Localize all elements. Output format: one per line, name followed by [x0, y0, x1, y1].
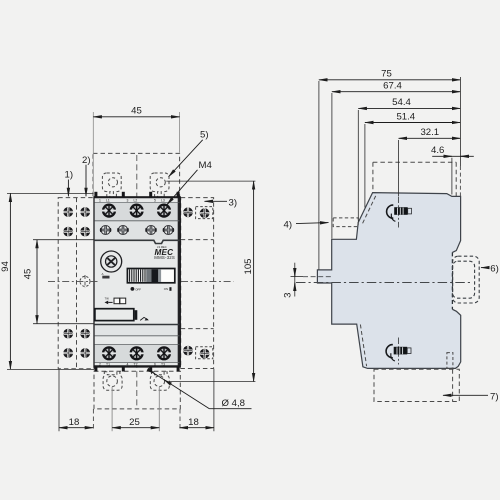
svg-text:67.4: 67.4 [383, 81, 402, 92]
side bottom right corner dashed detail [447, 353, 453, 369]
second row small screws [101, 225, 174, 234]
side 6) accessory dashed boxes [453, 256, 480, 303]
dimension 25 bottom [112, 417, 159, 428]
bottom terminal labels 2 T1 4 T2 6 T3 [99, 362, 165, 366]
label 6) [481, 264, 499, 275]
svg-text:L3: L3 [161, 199, 165, 203]
dimension 18 right bottom [180, 369, 214, 431]
bottom accessory module (dashed) [94, 371, 180, 409]
svg-text:T2: T2 [134, 362, 138, 366]
label M4 [167, 160, 213, 205]
bottom hole extension lines [112, 387, 159, 431]
right accessory screws [183, 207, 209, 358]
svg-text:32.1: 32.1 [420, 127, 439, 138]
svg-text:25: 25 [129, 417, 140, 428]
svg-text:1): 1) [65, 169, 74, 180]
device mounting feet tabs [94, 192, 179, 372]
side dashed slope parallel [363, 195, 377, 224]
label 1) [65, 169, 74, 196]
datum target circle left [48, 275, 98, 288]
device body front view [94, 197, 180, 367]
A marker [102, 272, 110, 278]
svg-text:A: A [102, 272, 104, 276]
svg-text:T1: T1 [106, 362, 110, 366]
svg-text:94: 94 [0, 261, 11, 272]
svg-text:3: 3 [283, 293, 294, 298]
side body outline solid [317, 193, 460, 369]
label 3) [205, 197, 238, 208]
toggle switch [127, 269, 174, 283]
dimension 67.4 [332, 81, 461, 239]
svg-text:75: 75 [381, 69, 392, 80]
svg-text:5: 5 [154, 199, 156, 203]
svg-text:6: 6 [154, 362, 156, 366]
label 4) [284, 219, 329, 230]
svg-text:TW: TW [105, 297, 110, 301]
svg-text:6): 6) [490, 264, 499, 275]
side centerline [296, 282, 471, 284]
side 7) accessory dashed box [374, 369, 459, 401]
label 5) [169, 130, 209, 177]
top accessory module (dashed) [93, 153, 180, 197]
bottom terminal screws [102, 346, 172, 360]
rotary dial [101, 251, 122, 272]
svg-text:105: 105 [243, 258, 254, 274]
left accessory screws [63, 207, 90, 358]
device centerline vertical (dashed) [136, 155, 138, 409]
side front hidden edge (dashed) [451, 252, 453, 309]
left accessory block (dashed) [58, 198, 94, 369]
svg-text:OFF: OFF [135, 287, 141, 291]
dimension 94 left [0, 193, 94, 369]
svg-text:ON: ON [164, 287, 168, 291]
label 7) [443, 391, 499, 402]
side screw top [387, 197, 412, 228]
dimension 54.4 [358, 97, 460, 221]
dimension 32.1 [399, 127, 461, 196]
dimension 75 [319, 69, 461, 270]
bottom clamp left [103, 372, 122, 390]
svg-text:5): 5) [200, 130, 209, 141]
svg-text:T3: T3 [161, 362, 165, 366]
svg-text:18: 18 [188, 417, 199, 428]
svg-text:MMS-32S: MMS-32S [154, 255, 175, 260]
dimension 51.4 [365, 111, 461, 207]
side screw bottom [386, 338, 411, 365]
side 4) dashed box [333, 218, 358, 227]
svg-text:1: 1 [99, 199, 101, 203]
svg-text:3): 3) [229, 197, 238, 208]
svg-text:2): 2) [82, 155, 91, 166]
top clamp right [150, 173, 169, 198]
top clamp left [102, 173, 121, 198]
dimension 45 top [93, 105, 179, 195]
svg-text:7): 7) [490, 391, 499, 402]
svg-text:L1: L1 [106, 199, 110, 203]
svg-text:4: 4 [127, 362, 129, 366]
OFF / ON markings [131, 287, 172, 291]
top terminal labels 1 L1 3 L2 5 L3 [99, 199, 165, 203]
svg-text:2: 2 [99, 362, 101, 366]
label dia 4,8 [148, 370, 251, 409]
svg-text:3: 3 [127, 199, 129, 203]
side top accessory outline (dashed) [373, 162, 456, 196]
svg-text:4): 4) [284, 219, 293, 230]
dimension 105 right [166, 181, 255, 381]
svg-text:51.4: 51.4 [396, 111, 415, 122]
MEC logo [154, 245, 175, 260]
svg-text:M4: M4 [199, 160, 213, 171]
centerline right side [181, 280, 234, 282]
svg-text:18: 18 [69, 417, 80, 428]
svg-text:54.4: 54.4 [392, 97, 411, 108]
side body fill [317, 193, 460, 369]
top terminal screws [102, 204, 172, 218]
test button [105, 297, 126, 305]
bottom clamp right [150, 372, 169, 390]
right accessory dashed sub-squares [196, 207, 213, 359]
svg-text:45: 45 [131, 105, 142, 116]
dimension 45 inner left [23, 240, 95, 324]
dimension 4.6 [431, 145, 474, 195]
side bottom dashed slope parallel [360, 325, 366, 367]
reset bar [95, 309, 149, 321]
right accessory block (dashed) [181, 198, 214, 369]
svg-text:45: 45 [23, 269, 34, 280]
svg-text:4.6: 4.6 [431, 145, 444, 156]
svg-text:Ø 4,8: Ø 4,8 [222, 398, 245, 409]
svg-text:L2: L2 [134, 199, 138, 203]
dimension 18 left bottom [59, 369, 93, 431]
label 2) [82, 155, 91, 197]
dimension 3 [283, 263, 303, 298]
DIN tab hidden dash [303, 276, 333, 278]
